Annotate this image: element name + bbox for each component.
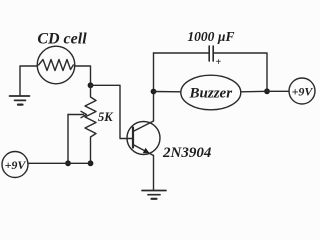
wire top rail right (capacitor to node E) [213,53,267,91]
node E (buzzer-right / +9V junction) [264,88,270,94]
label +9V (bottom left) [5,158,27,172]
svg-text:2N3904: 2N3904 [162,145,212,161]
svg-text:CD cell: CD cell [37,31,87,48]
wire node D to buzzer left [154,91,181,93]
svg-text:5K: 5K [98,110,114,124]
photocell CD cell (circle body) [37,46,75,84]
node D (collector / buzzer-left / cap-left junction) [151,89,157,95]
battery B1 +9V (bottom left) [2,152,28,178]
svg-text:+9V: +9V [292,85,314,99]
wire +9V to bottom rail [28,162,91,164]
label 5K [98,110,114,124]
wire photocell right lead down to node A [75,66,91,85]
label 2N3904 [162,145,212,161]
wire buzzer right to node E [241,90,267,93]
node A (junction dot photocell/pot/base) [88,82,94,88]
label Buzzer [189,86,233,102]
label CD cell [37,31,87,48]
node B (wiper / bottom rail junction) [65,160,71,166]
label +9V (right) [292,85,314,99]
battery B2 +9V (right) [289,78,315,104]
wire node E to battery B2 [267,90,289,92]
wire top rail left (node D to capacitor) [154,52,210,54]
wire wiper down to bottom rail [67,115,69,164]
wire node A to transistor base [91,85,133,138]
ground G2 (below transistor emitter) [142,191,166,199]
capacitor C1 1000uF [209,46,213,61]
node C (pot bottom / bottom rail junction) [88,160,94,166]
ground G1 (left, below CD cell) [10,96,30,105]
label 1000 uF [187,29,234,44]
wire photocell left lead to ground [20,66,37,96]
transistor Q1 2N3904 [127,121,160,156]
potentiometer wiper arrow [68,111,87,117]
wire emitter down to ground [153,156,155,191]
svg-text:1000 µF: 1000 µF [187,29,234,44]
wire collector up to node D [153,53,155,121]
svg-text:Buzzer: Buzzer [189,86,233,102]
svg-text:+: + [216,57,222,68]
label capacitor polarity + [216,57,222,68]
buzzer BZ1 (ellipse) [181,75,241,110]
svg-text:+9V: +9V [5,158,27,172]
potentiometer R1 5K (zigzag element) [85,85,96,163]
